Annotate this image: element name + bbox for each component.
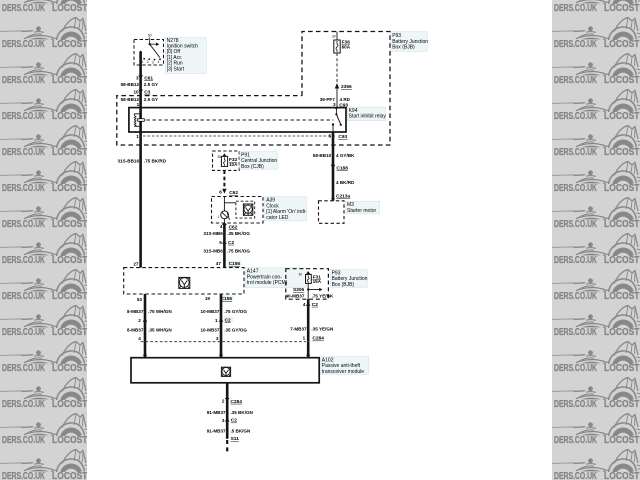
passive anti-theft transceiver module A102 xyxy=(131,358,319,383)
svg-text:91-MB37: 91-MB37 xyxy=(207,428,226,433)
clock A39 box xyxy=(212,197,264,224)
svg-text:8-MB37: 8-MB37 xyxy=(127,328,144,333)
svg-text:.75 BK/OG: .75 BK/OG xyxy=(227,248,250,253)
svg-text:[3] Start: [3] Start xyxy=(167,66,185,72)
wire clock to PCM pin 47 xyxy=(223,223,226,268)
fuse F32 10A xyxy=(222,153,226,156)
svg-text:.35 YE/GN: .35 YE/GN xyxy=(311,327,334,332)
connector C93 line xyxy=(143,135,336,137)
svg-text:50: 50 xyxy=(148,34,152,38)
svg-text:C2: C2 xyxy=(231,418,237,424)
relay coil-switch dashed link xyxy=(147,119,334,121)
battery junction box P93 outline xyxy=(117,32,390,146)
svg-text:47: 47 xyxy=(216,261,222,266)
ignition switch N278 xyxy=(134,40,164,66)
svg-text:10-MB37: 10-MB37 xyxy=(200,328,219,333)
central junction box P91 xyxy=(213,151,240,170)
svg-text:Box (BJB): Box (BJB) xyxy=(332,282,355,288)
wire C284 pin3 to A102 xyxy=(220,342,223,358)
svg-text:3: 3 xyxy=(333,102,336,107)
wire arrow to relay pin 3 xyxy=(336,89,338,108)
svg-text:trol module (PCM): trol module (PCM) xyxy=(247,280,288,286)
svg-text:1: 1 xyxy=(137,102,140,107)
svg-text:7-MB37: 7-MB37 xyxy=(290,327,307,332)
svg-text:19: 19 xyxy=(205,296,211,301)
wire fuse F31 to C284 pin 1 xyxy=(307,299,310,342)
svg-text:31S-BB16: 31S-BB16 xyxy=(118,158,140,163)
svg-text:30: 30 xyxy=(332,35,336,39)
A102 label xyxy=(320,357,368,375)
svg-text:31S-MB6: 31S-MB6 xyxy=(203,248,223,253)
svg-text:C2: C2 xyxy=(225,317,231,323)
connector C284 line xyxy=(141,341,306,343)
svg-text:C62: C62 xyxy=(229,190,238,196)
svg-text:1: 1 xyxy=(136,134,139,139)
A39 clock label xyxy=(265,197,307,221)
N278 ignition switch label xyxy=(165,38,206,74)
svg-text:30: 30 xyxy=(298,273,302,277)
svg-text:.75 WH/GN: .75 WH/GN xyxy=(148,309,172,314)
svg-text:.35 BK/OG: .35 BK/OG xyxy=(227,231,250,236)
P93 battery junction box label xyxy=(391,32,428,52)
wire relay coil to PCM pin 27 xyxy=(139,132,142,268)
svg-text:4: 4 xyxy=(220,224,223,229)
svg-text:5: 5 xyxy=(329,134,332,139)
svg-text:C93: C93 xyxy=(338,134,347,140)
wire PCM pin 53 to C284 pin 4 xyxy=(144,294,147,342)
wire A102 pin 2 to S11 xyxy=(226,383,229,438)
svg-text:.75 BK/RD: .75 BK/RD xyxy=(144,158,167,163)
node arrow 2366 xyxy=(335,83,339,89)
svg-text:C213a: C213a xyxy=(336,193,350,199)
svg-text:2366: 2366 xyxy=(341,84,352,90)
A147 PCM label xyxy=(245,268,306,288)
svg-text:C284: C284 xyxy=(312,336,324,342)
svg-text:40-MB37: 40-MB37 xyxy=(285,293,304,298)
svg-text:4: 4 xyxy=(138,336,141,341)
clock icon xyxy=(243,204,252,215)
svg-text:3: 3 xyxy=(222,418,225,423)
svg-text:C188: C188 xyxy=(336,165,348,171)
svg-text:60A: 60A xyxy=(342,45,351,50)
diagram white area xyxy=(87,0,552,480)
svg-text:15A: 15A xyxy=(313,279,322,284)
svg-text:30: 30 xyxy=(217,155,221,159)
svg-text:4: 4 xyxy=(158,60,160,64)
svg-text:1: 1 xyxy=(215,318,218,323)
svg-text:C155: C155 xyxy=(221,296,233,302)
wire S11 continuation (dashed) xyxy=(226,440,228,455)
svg-text:C62: C62 xyxy=(229,224,238,230)
svg-text:4 BK/RD: 4 BK/RD xyxy=(336,180,355,185)
P91 central junction box label xyxy=(240,152,278,170)
wire C284 pin4 to A102 xyxy=(144,342,147,358)
fuse F36 60A xyxy=(336,32,338,41)
svg-text:3: 3 xyxy=(136,75,139,80)
svg-text:S11: S11 xyxy=(231,436,240,442)
svg-text:Box (BJB): Box (BJB) xyxy=(392,44,415,50)
powertrain control module A147 xyxy=(124,268,244,294)
svg-text:2: 2 xyxy=(222,399,225,404)
P93 label (lower) xyxy=(330,270,367,288)
svg-text:Starter motor: Starter motor xyxy=(347,208,377,214)
svg-text:2.5 GY: 2.5 GY xyxy=(144,82,158,87)
svg-text:.5 BK/GN: .5 BK/GN xyxy=(230,428,251,433)
svg-text:C3: C3 xyxy=(144,90,150,96)
svg-text:Box (CJB): Box (CJB) xyxy=(241,164,264,170)
LED indicator xyxy=(223,197,225,212)
wire ignition switch to relay coil xyxy=(139,52,142,132)
svg-text:.75 GY/OG: .75 GY/OG xyxy=(224,309,247,314)
wire C284 pin1 to A102 xyxy=(307,342,310,358)
svg-text:58-BB12: 58-BB12 xyxy=(121,82,140,87)
relay switch xyxy=(335,107,337,109)
svg-text:10-MB37: 10-MB37 xyxy=(200,309,219,314)
svg-text:58-BB10: 58-BB10 xyxy=(313,153,332,158)
svg-text:10A: 10A xyxy=(229,162,238,167)
svg-text:.75 YE/BK: .75 YE/BK xyxy=(312,293,334,298)
svg-text:2.5 GY: 2.5 GY xyxy=(144,97,158,102)
A102 icon xyxy=(221,367,230,376)
battery junction box P93 (lower) xyxy=(286,269,329,300)
svg-text:Start inhibit relay: Start inhibit relay xyxy=(349,114,387,120)
svg-text:S306: S306 xyxy=(293,287,305,293)
svg-text:3: 3 xyxy=(152,60,154,64)
splice S11 xyxy=(226,436,229,439)
svg-text:4 RD: 4 RD xyxy=(340,97,351,102)
svg-text:1: 1 xyxy=(303,336,306,341)
svg-text:.35 WH/GN: .35 WH/GN xyxy=(148,328,172,333)
svg-text:C2: C2 xyxy=(228,240,234,246)
splice S306 xyxy=(307,283,309,299)
wire fuse F36 to arrow (inside BJB, dashed) xyxy=(336,53,338,83)
svg-text:2: 2 xyxy=(138,318,141,323)
svg-text:C284: C284 xyxy=(230,399,242,405)
connector C188 xyxy=(331,165,335,167)
svg-text:5: 5 xyxy=(219,240,222,245)
svg-text:53: 53 xyxy=(137,297,143,302)
M3 starter motor label xyxy=(346,201,380,214)
svg-text:.35 GY/OG: .35 GY/OG xyxy=(224,328,247,333)
svg-text:transceiver module: transceiver module xyxy=(322,369,364,375)
svg-text:C61: C61 xyxy=(144,76,153,82)
wire relay to starter motor xyxy=(332,132,335,201)
svg-text:C155: C155 xyxy=(229,261,241,267)
svg-text:2: 2 xyxy=(147,60,149,64)
relay K94 start inhibit relay box xyxy=(129,108,346,132)
svg-text:8-MB37: 8-MB37 xyxy=(127,309,144,314)
PCM icon xyxy=(179,277,190,288)
svg-text:27: 27 xyxy=(133,261,139,266)
fuse F31 15A xyxy=(306,271,310,274)
relay coil xyxy=(140,113,142,115)
svg-text:10: 10 xyxy=(133,89,139,94)
svg-text:4 GY/BK: 4 GY/BK xyxy=(336,153,355,158)
K94 start inhibit relay label xyxy=(347,107,386,121)
svg-text:6: 6 xyxy=(219,190,222,195)
svg-text:4: 4 xyxy=(303,302,306,307)
svg-text:C2: C2 xyxy=(312,302,318,308)
svg-text:91-MB37: 91-MB37 xyxy=(207,410,226,415)
svg-text:31S-MB6: 31S-MB6 xyxy=(203,231,223,236)
wire CJB fuse to C62 (dashed) xyxy=(223,170,225,188)
wire PCM pin 19 to C284 pin 3 xyxy=(220,294,223,342)
starter motor M3 xyxy=(331,198,335,201)
svg-text:cator LED: cator LED xyxy=(266,215,289,221)
svg-text:1: 1 xyxy=(218,215,220,219)
svg-text:3: 3 xyxy=(216,336,219,341)
svg-text:.35 BK/GN: .35 BK/GN xyxy=(230,410,253,415)
